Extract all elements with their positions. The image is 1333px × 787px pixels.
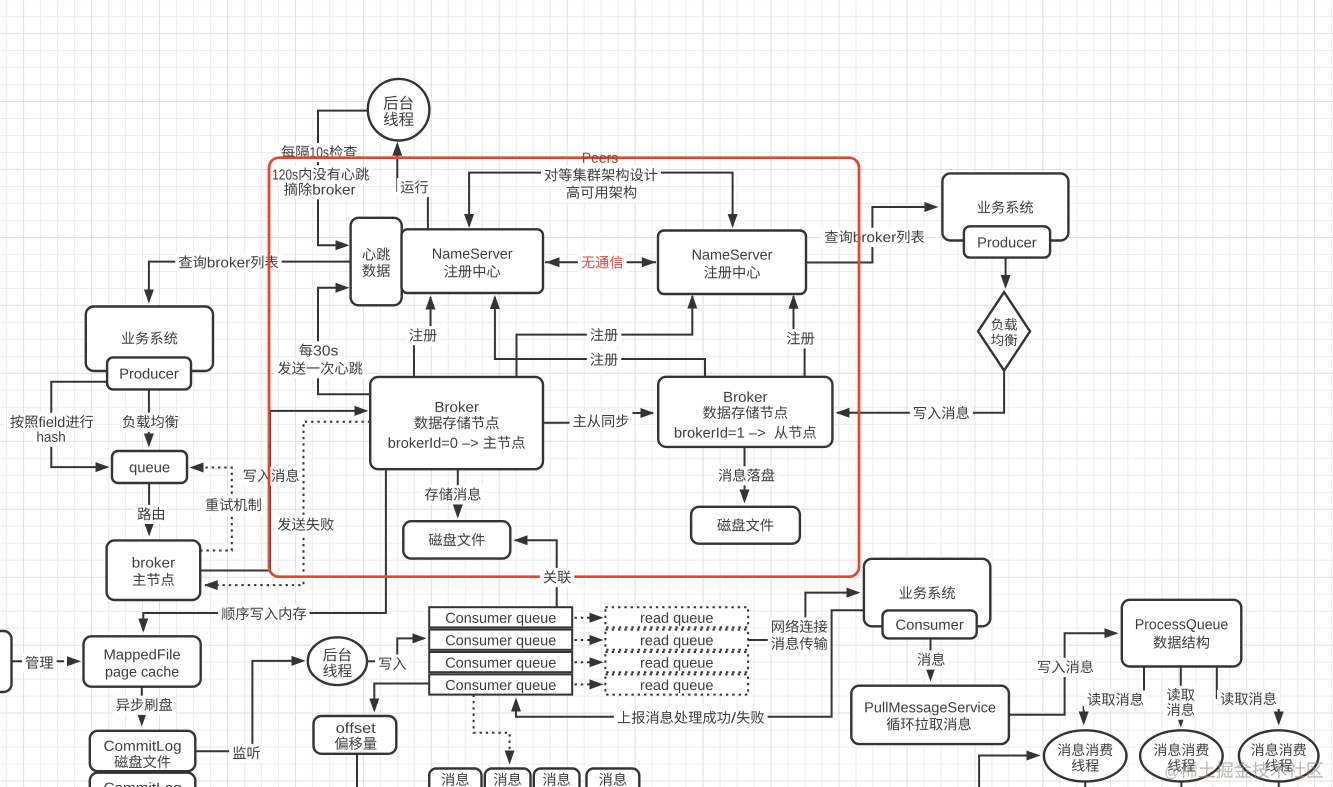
box Broker1 数据存储节点 主节点 xyxy=(370,377,543,469)
wire no-communication (NameServer1 <-> NameServer2) xyxy=(545,257,656,267)
box Consumer queue row3 xyxy=(429,652,572,672)
box Consumer queue row1 xyxy=(429,607,572,627)
box read queue row4 (dotted) xyxy=(605,674,748,694)
label 读取消息 (3) xyxy=(1217,690,1280,709)
label 关联 xyxy=(540,568,575,587)
label 重试机制 xyxy=(202,496,265,515)
label 运行 xyxy=(397,178,432,197)
wire consumer queue to offset 偏移量 xyxy=(369,684,429,713)
cluster boundary Peers (red rectangle) xyxy=(269,158,859,577)
wire 写入消息 (broker master to Broker1) xyxy=(200,406,368,571)
wire dotted 重试机制 (broker master to queue) xyxy=(190,463,232,551)
ellipse 消息消费线程 3 xyxy=(1239,730,1319,781)
wire 网络连接消息传输 read queue to 业务系统3 xyxy=(748,588,860,640)
box 消息 bottom 1 xyxy=(429,769,481,787)
label 按照field进行 / hash xyxy=(7,413,97,447)
box Producer2 xyxy=(964,226,1050,257)
label 注册 (B2-NS1) xyxy=(587,350,622,369)
label 120s内没有心跳 / 摘除broker xyxy=(269,165,372,199)
box ProcessQueue 数据结构 xyxy=(1122,600,1242,667)
wire Broker1 to heartbeat-data (every 30s heartbeat) xyxy=(318,283,370,395)
wire 读取消息 ProcessQueue to thread1 xyxy=(1079,667,1144,726)
diamond 负载均衡 xyxy=(978,292,1030,371)
wire 存储消息 Broker1 down to 磁盘文件1 xyxy=(453,469,463,518)
wire 监听 CommitLog to background-thread2 xyxy=(195,656,305,751)
wire 注册 Broker2 to NameServer2 xyxy=(789,295,805,377)
label 负载均衡 (left) xyxy=(119,413,182,432)
box 业务系统1 (left) xyxy=(86,307,213,372)
wire dotted consumer queue down to 消息 box xyxy=(474,695,515,765)
label 查询broker列表 (right) xyxy=(821,228,927,247)
label 网络连接 / 消息传输 xyxy=(768,617,831,653)
wire 上报消息处理成功/失败 业务系统3 to consumer queue xyxy=(511,610,864,717)
box NameServer1 注册中心 xyxy=(402,229,544,293)
wire dotted consumer->read queue row2 xyxy=(575,635,604,645)
wire Producer2 down to 负载均衡 diamond xyxy=(1001,258,1011,289)
wire 写入消息 PullMessageService to ProcessQueue xyxy=(1009,628,1119,715)
box broker 主节点 xyxy=(107,540,201,600)
wire thread ellipse 3 stub down xyxy=(1278,779,1280,787)
label 监听 xyxy=(229,744,264,763)
ellipse 消息消费线程 2 xyxy=(1140,730,1223,781)
wire run (NameServer1 up to circle) xyxy=(392,142,428,230)
wire 注册 Broker1 to NameServer1 xyxy=(414,296,436,377)
wire 路由 (queue down to broker master) xyxy=(144,483,154,537)
label 注册 (B1-NS1) xyxy=(406,326,441,345)
box heartbeat data 心跳数据 xyxy=(351,218,402,305)
label 写入消息 (right) xyxy=(910,404,973,423)
wire offset box down off-canvas xyxy=(356,754,358,787)
box Broker2 数据存储节点 从节点 xyxy=(658,377,832,447)
box 磁盘文件1 xyxy=(403,521,510,558)
label 管理 xyxy=(22,654,57,673)
label 写入消息 (bottom) xyxy=(1034,658,1097,677)
wire 异步刷盘 MappedFile down to CommitLog xyxy=(137,687,147,727)
label 每30s / 发送一次心跳 xyxy=(274,341,366,378)
wire dotted consumer->read queue row1 xyxy=(575,613,604,623)
wire query broker list to 业务系统1 and heartbeat-data xyxy=(144,262,351,304)
label 注册 (B2-NS2) xyxy=(783,329,818,348)
watermark 稀土掘金技术社区 xyxy=(1165,761,1323,779)
wire 关联 consumer queue up to 磁盘文件1 xyxy=(514,535,557,607)
wire 写入 background-thread2 to consumer queue xyxy=(367,633,427,661)
wire 写入消息 diamond to Broker2 xyxy=(836,371,1005,418)
wire dotted consumer->read queue row4 xyxy=(575,679,604,689)
label 发送失败 xyxy=(274,515,337,534)
box 消息 bottom 2 xyxy=(485,769,531,787)
label 存储消息 xyxy=(422,485,485,504)
box read queue row3 (dotted) xyxy=(605,652,748,672)
wire 读取消息 ProcessQueue to thread3 xyxy=(1217,667,1284,726)
label 注册 (B1-NS2) xyxy=(587,326,622,345)
box CommitLog 磁盘文件 xyxy=(90,731,196,771)
label Peers xyxy=(583,153,618,163)
box CommitLog2 (clipped) xyxy=(90,773,196,787)
label 顺序写入内存 xyxy=(218,605,310,624)
wire 读取消息 ProcessQueue to thread2 xyxy=(1176,667,1186,728)
box 消息 bottom 3 xyxy=(534,769,580,787)
wire 主从同步 Broker1 to Broker2 xyxy=(543,408,655,423)
box Consumer3 xyxy=(883,610,977,638)
wire circle to heartbeat-data (every 10s check) xyxy=(318,111,368,251)
box PullMessageService xyxy=(851,686,1009,744)
box read queue row2 (dotted) xyxy=(605,630,748,650)
box 业务系统2 (right) xyxy=(942,173,1068,240)
wire thread ellipse 2 stub down xyxy=(1180,779,1182,787)
label 每隔10s检查 xyxy=(278,143,361,162)
label 对等集群架构设计 / 高可用架构 xyxy=(541,166,661,203)
box 业务系统3 (consumer) xyxy=(864,559,990,627)
wire 负载均衡 (Producer1 down to queue) xyxy=(144,389,154,447)
box queue xyxy=(112,451,187,483)
box read queue row1 (dotted) xyxy=(605,607,748,627)
box MappedFile page cache xyxy=(84,636,201,686)
wire 消息 Consumer3 down to PullMessageService xyxy=(926,638,936,681)
box Consumer queue row4 xyxy=(429,674,572,694)
label 路由 xyxy=(134,505,169,524)
box 磁盘文件2 xyxy=(691,507,800,544)
label 读取消息 (1) xyxy=(1084,690,1147,709)
box Consumer queue row2 xyxy=(429,630,572,650)
ellipse 消息消费线程 1 xyxy=(1044,730,1127,781)
label 读取 / 消息 (2) xyxy=(1164,686,1199,720)
wire dotted 发送失败 (Broker1 to broker master) xyxy=(204,422,371,590)
circle background thread (top) xyxy=(368,79,430,141)
box 消息 bottom 4 xyxy=(587,769,640,787)
wire from bottom edge into thread ellipse1 xyxy=(979,751,1040,787)
label 异步刷盘 xyxy=(113,696,176,715)
label 主从同步 xyxy=(570,412,633,431)
wire hash (Producer1 left to queue) xyxy=(51,382,109,472)
label 查询broker列表 (left) xyxy=(175,253,281,272)
label 无通信 xyxy=(578,253,627,272)
box cut-off at left edge xyxy=(0,631,12,692)
wire 查询broker列表 NameServer2 to 业务系统2 xyxy=(806,202,939,263)
box NameServer2 注册中心 xyxy=(658,231,806,295)
box offset 偏移量 xyxy=(314,716,397,754)
wire 注册 Broker1 to NameServer2 xyxy=(517,295,698,377)
wire 注册 Broker2 to NameServer1 xyxy=(490,295,705,377)
label 消息落盘 xyxy=(715,466,778,485)
wire 管理 left box to MappedFile xyxy=(12,656,82,666)
wire 顺序写入内存 Broker1 down to MappedFile xyxy=(138,469,386,632)
wire peer-architecture into NameServer tops xyxy=(464,173,737,228)
wire dotted consumer->read queue row3 xyxy=(575,657,604,667)
label 写入消息 (left) xyxy=(240,467,303,486)
wire thread ellipse 1 stub down xyxy=(1084,779,1086,787)
box Producer1 xyxy=(107,357,191,389)
label 消息 (consumer) xyxy=(914,650,949,669)
ellipse background thread 2 xyxy=(308,637,367,685)
label 写入 xyxy=(375,655,410,674)
label 上报消息处理成功/失败 xyxy=(614,708,768,727)
wire 消息落盘 Broker2 down to 磁盘文件2 xyxy=(740,447,750,504)
